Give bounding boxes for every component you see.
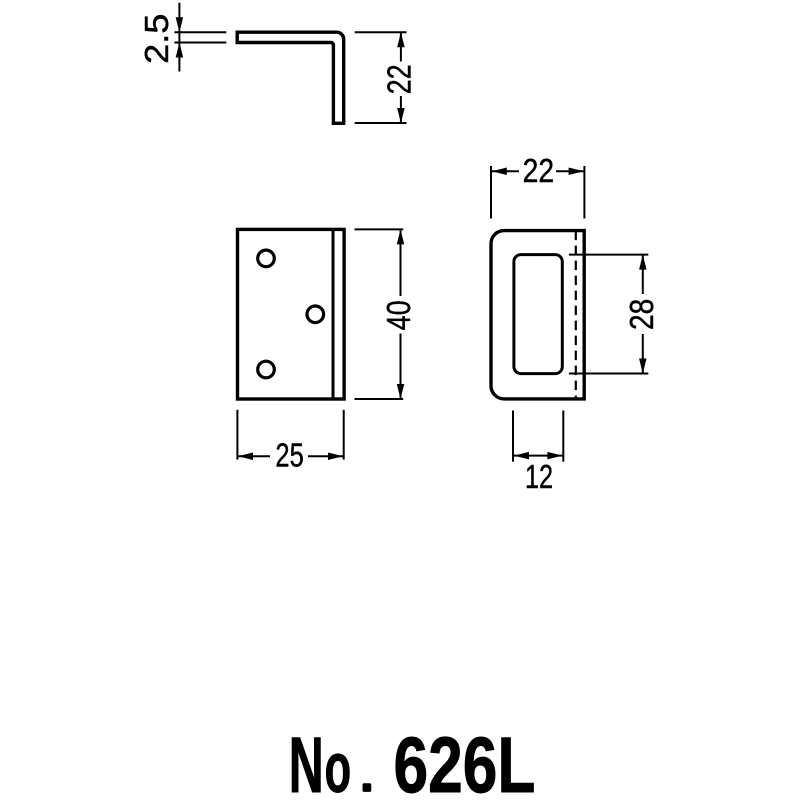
svg-text:N: N (289, 720, 324, 800)
svg-text:626L: 626L (394, 720, 536, 800)
svg-text:25: 25 (275, 436, 303, 473)
svg-text:o: o (325, 728, 352, 800)
svg-text:2.5: 2.5 (138, 14, 175, 64)
svg-text:28: 28 (623, 299, 660, 330)
svg-text:22: 22 (523, 152, 555, 189)
svg-text:40: 40 (380, 300, 417, 330)
svg-text:22: 22 (380, 64, 417, 94)
svg-text:12: 12 (525, 458, 553, 495)
